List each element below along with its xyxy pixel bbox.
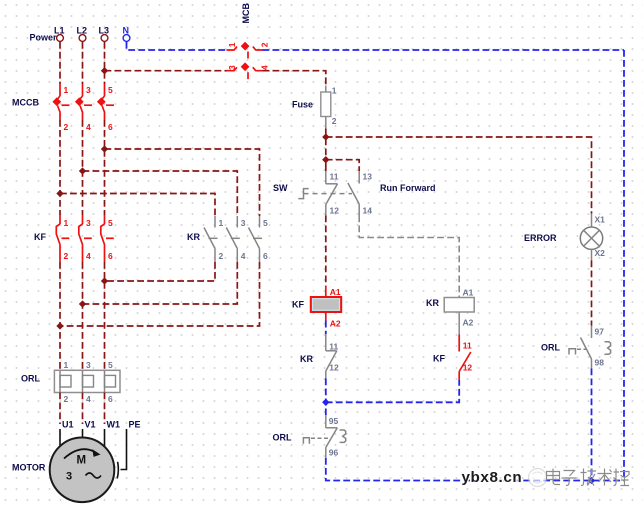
svg-text:2: 2: [219, 251, 224, 261]
wire L2 KF to ORL: [82, 262, 84, 370]
svg-text:X2: X2: [595, 248, 606, 258]
svg-text:95: 95: [329, 416, 339, 426]
breaker MCCB pole 1: [52, 84, 69, 132]
node junction L3 control tap: [101, 67, 108, 74]
svg-text:1: 1: [227, 42, 237, 47]
wire junction to KF aux branch: [326, 380, 459, 402]
wire ORL 98 down: [591, 369, 593, 481]
contactor KF pole 1: [56, 215, 69, 262]
svg-text:1: 1: [219, 218, 224, 228]
svg-text:M: M: [77, 455, 87, 467]
svg-text:KR: KR: [426, 298, 439, 308]
svg-text:3: 3: [241, 218, 246, 228]
svg-text:Run Forward: Run Forward: [380, 183, 436, 193]
contactor KR pole 2: [226, 216, 246, 262]
wire L2 MCCB to KF: [82, 120, 84, 215]
svg-text:3: 3: [86, 360, 91, 370]
node junction at SW: [322, 156, 329, 163]
svg-text:5: 5: [108, 85, 113, 95]
contactor KF pole 3: [101, 215, 114, 262]
wire L2 down to MCCB: [82, 42, 84, 84]
svg-text:4: 4: [86, 122, 91, 132]
svg-text:U1: U1: [62, 420, 74, 430]
wire stub motor W1: [104, 429, 106, 447]
watermark glyph dian: [547, 469, 561, 485]
overload ORL heater 2: [83, 360, 94, 404]
svg-text:2: 2: [64, 394, 69, 404]
contact ORL 95-96 actuator: [303, 438, 330, 444]
node N: [123, 26, 130, 42]
wire SW 14 to KR coil: [359, 216, 459, 298]
CONTROL-CIRCUIT: [105, 3, 625, 485]
wire L3 MCCB to KF: [104, 120, 106, 215]
svg-text:5: 5: [108, 360, 113, 370]
svg-text:98: 98: [595, 358, 605, 368]
svg-text:V1: V1: [85, 420, 96, 430]
node junction crossover L2: [79, 300, 86, 307]
contactor KR pole 3: [249, 216, 269, 262]
svg-text:ORL: ORL: [273, 433, 293, 443]
wire N after MCB to right: [263, 49, 625, 51]
wire MCB to fuse: [263, 71, 326, 86]
wire branch to ERROR lamp: [326, 137, 592, 214]
wire L3 tap to MCB: [105, 70, 227, 72]
wire ORL to motor U: [59, 393, 61, 425]
overload ORL box: [54, 370, 120, 392]
watermark glyph kong: [614, 469, 630, 486]
svg-text:14: 14: [363, 206, 373, 216]
node junction blue: [322, 399, 329, 406]
contact ORL 95-96: [326, 415, 339, 458]
svg-text:MCB: MCB: [241, 3, 251, 24]
svg-text:4: 4: [241, 251, 246, 261]
svg-text:2: 2: [260, 42, 270, 47]
switch SW pole 11-12: [326, 171, 339, 216]
wire branch L3 to KR pole3: [105, 149, 260, 216]
wire PE to motor frame: [121, 429, 127, 470]
fuse F1: [321, 86, 337, 129]
svg-text:ORL: ORL: [541, 343, 561, 353]
node junction crossover L3: [101, 277, 108, 284]
contactor KR pole 1: [204, 216, 224, 262]
svg-text:ERROR: ERROR: [524, 233, 557, 243]
svg-text:A2: A2: [463, 318, 474, 328]
coil KR: [444, 288, 474, 335]
motor frame arc: [117, 462, 118, 479]
wire fuse to SW junction: [325, 129, 327, 161]
svg-text:Power: Power: [30, 33, 58, 43]
svg-text:11: 11: [463, 341, 472, 351]
svg-text:1: 1: [64, 218, 69, 228]
wire L1 MCCB to KF: [59, 120, 61, 215]
wire KR pole2 crossover to L2: [83, 262, 238, 304]
svg-text:KF: KF: [433, 354, 445, 364]
wire ORL to motor V: [82, 393, 84, 425]
svg-text:MCCB: MCCB: [12, 98, 39, 108]
svg-text:2: 2: [332, 116, 337, 126]
contact ORL 97-98 latch: [605, 342, 611, 354]
breaker MCB pole 1 on N: [227, 42, 270, 59]
svg-text:3: 3: [227, 65, 237, 70]
svg-text:6: 6: [108, 394, 113, 404]
wire stub motor V1: [82, 429, 84, 438]
node junction crossover L1: [56, 322, 63, 329]
svg-text:6: 6: [108, 122, 113, 132]
contact KF aux 11-12: [459, 335, 472, 381]
svg-text:W1: W1: [107, 420, 121, 430]
svg-text:3: 3: [66, 471, 72, 483]
wire N to MCB: [127, 42, 227, 50]
breaker MCB pole 2 on phase: [227, 62, 270, 79]
node junction bottom blue: [588, 477, 595, 484]
wire L1 down to MCCB: [59, 42, 61, 84]
wire ORL to motor W: [104, 393, 106, 425]
WATERMARK: [462, 469, 630, 487]
motor M1: [50, 438, 115, 503]
node junction L2 to KR: [79, 167, 86, 174]
contactor KF pole 2: [79, 215, 92, 262]
wire L3 down to MCCB: [104, 42, 106, 84]
node junction L3 to KR: [101, 145, 108, 152]
svg-text:4: 4: [260, 65, 270, 70]
wire L3 KF to ORL: [104, 262, 106, 370]
svg-text:KR: KR: [187, 232, 200, 242]
wire junction to SW 11: [325, 160, 327, 171]
svg-text:KF: KF: [34, 232, 46, 242]
svg-text:12: 12: [463, 363, 473, 373]
watermark glyph shu: [598, 469, 612, 486]
overload ORL heater 1: [60, 360, 71, 404]
wire junction to SW 13: [326, 160, 359, 171]
svg-text:3: 3: [86, 85, 91, 95]
svg-text:2: 2: [64, 251, 69, 261]
MAIN-CIRCUIT: [12, 26, 268, 503]
svg-text:5: 5: [263, 218, 268, 228]
svg-text:A1: A1: [330, 287, 341, 297]
wire N down right side: [623, 50, 625, 481]
svg-text:ORL: ORL: [21, 374, 41, 384]
svg-text:96: 96: [329, 448, 339, 458]
svg-text:KR: KR: [300, 354, 313, 364]
svg-text:1: 1: [64, 85, 69, 95]
svg-text:ybx8.cn: ybx8.cn: [462, 469, 523, 486]
wire branch L2 to KR pole2: [83, 171, 238, 216]
svg-text:MOTOR: MOTOR: [12, 463, 46, 473]
wire branch L1 to KR pole1: [60, 194, 215, 217]
switch SW actuator: [298, 189, 308, 199]
breaker MCCB pole 3: [97, 84, 114, 132]
coil KF: [311, 286, 341, 329]
node L2: [77, 26, 88, 42]
svg-text:3: 3: [86, 218, 91, 228]
svg-text:6: 6: [108, 251, 113, 261]
node junction to lamp branch: [322, 133, 329, 140]
contact ORL 97-98: [581, 326, 605, 369]
wire stub motor U1: [59, 429, 61, 447]
svg-text:A1: A1: [463, 288, 474, 298]
switch SW pole 13-14: [348, 171, 372, 216]
svg-text:2: 2: [64, 122, 69, 132]
node junction L1 to KR: [56, 190, 63, 197]
wire L1 KF to ORL: [59, 262, 61, 370]
svg-text:11: 11: [330, 172, 339, 182]
wire ORL 96 to bottom rail: [326, 458, 624, 481]
switch SW link dashes: [304, 193, 353, 195]
svg-text:4: 4: [86, 394, 91, 404]
svg-text:A2: A2: [330, 319, 341, 329]
wire lamp to ORL contact: [591, 261, 593, 326]
contact ORL 97-98 actuator: [569, 349, 586, 355]
watermark glyph ji: [581, 469, 597, 486]
breaker MCCB pole 2: [75, 84, 92, 132]
overload ORL heater 3: [105, 360, 116, 404]
svg-text:6: 6: [263, 251, 268, 261]
svg-text:12: 12: [330, 206, 340, 216]
node L1: [54, 26, 65, 42]
contact KR aux 11-12: [326, 334, 339, 379]
svg-text:13: 13: [363, 172, 373, 182]
svg-text:5: 5: [108, 218, 113, 228]
wire KR aux to junction: [325, 379, 327, 416]
svg-text:97: 97: [595, 327, 605, 337]
wire SW 12 to KF coil: [325, 216, 327, 286]
svg-text:PE: PE: [129, 420, 141, 430]
watermark logo circle: [529, 469, 547, 487]
svg-text:X1: X1: [595, 215, 606, 225]
lamp ERROR: [580, 214, 605, 261]
watermark glyph zi: [562, 471, 577, 486]
node L3: [99, 26, 110, 42]
svg-text:4: 4: [86, 251, 91, 261]
svg-text:12: 12: [329, 363, 339, 373]
svg-text:11: 11: [329, 342, 338, 352]
contact ORL 95-96 latch: [340, 430, 346, 442]
svg-text:KF: KF: [292, 300, 304, 310]
wire KF coil to KR aux: [325, 321, 327, 335]
svg-text:Fuse: Fuse: [292, 100, 313, 110]
wire KR pole3 crossover to L1: [60, 262, 260, 326]
svg-text:SW: SW: [273, 183, 288, 193]
svg-text:1: 1: [64, 360, 69, 370]
wire KR pole1 crossover to L3: [105, 262, 216, 281]
svg-text:1: 1: [332, 86, 337, 96]
